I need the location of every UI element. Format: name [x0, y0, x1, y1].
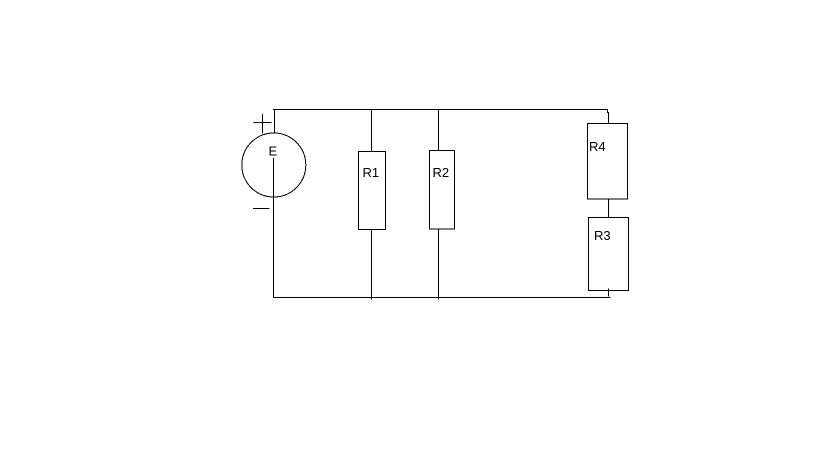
wire: R1 bottom lead [371, 230, 373, 300]
svg-text:R3: R3 [594, 228, 611, 243]
plus sign (+ polarity mark) [254, 114, 272, 134]
wire: R1 top lead [371, 109, 373, 152]
minus sign (- polarity mark) [253, 208, 270, 210]
wire: R2 top lead [438, 109, 440, 151]
wire: bottom bus [273, 297, 611, 299]
svg-text:R1: R1 [363, 165, 380, 180]
wire: connector between R4 and R3 [608, 199, 610, 220]
voltage source E (circle) [242, 133, 306, 197]
wire: R3 bottom stub to bottom bus [608, 289, 610, 297]
resistor R4 [588, 124, 628, 200]
wire: voltage source negative lead down to bottom bus [273, 158, 275, 298]
resistor R2 [430, 151, 455, 230]
svg-text:R2: R2 [433, 165, 450, 180]
wire: top bus from source to R4 (with small jog at right end) [273, 110, 609, 124]
resistor R3 [589, 218, 629, 291]
wire: R2 bottom lead [438, 229, 440, 300]
resistor R1 [359, 152, 386, 230]
svg-text:R4: R4 [589, 139, 606, 154]
svg-text:E: E [269, 143, 278, 158]
wire: voltage source positive (top) lead [274, 109, 276, 134]
